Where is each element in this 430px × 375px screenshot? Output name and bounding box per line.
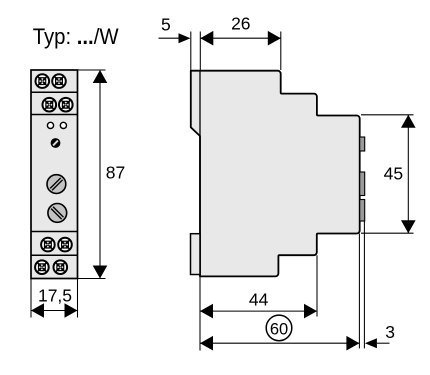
svg-text:5: 5 <box>161 14 171 34</box>
svg-text:87: 87 <box>106 163 125 183</box>
svg-text:60: 60 <box>270 320 288 338</box>
svg-text:44: 44 <box>249 290 269 310</box>
svg-text:26: 26 <box>231 14 250 34</box>
svg-text:17,5: 17,5 <box>38 285 72 305</box>
svg-text:Typ: .../W: Typ: .../W <box>33 24 120 49</box>
svg-text:45: 45 <box>384 163 403 183</box>
svg-text:3: 3 <box>385 322 395 342</box>
